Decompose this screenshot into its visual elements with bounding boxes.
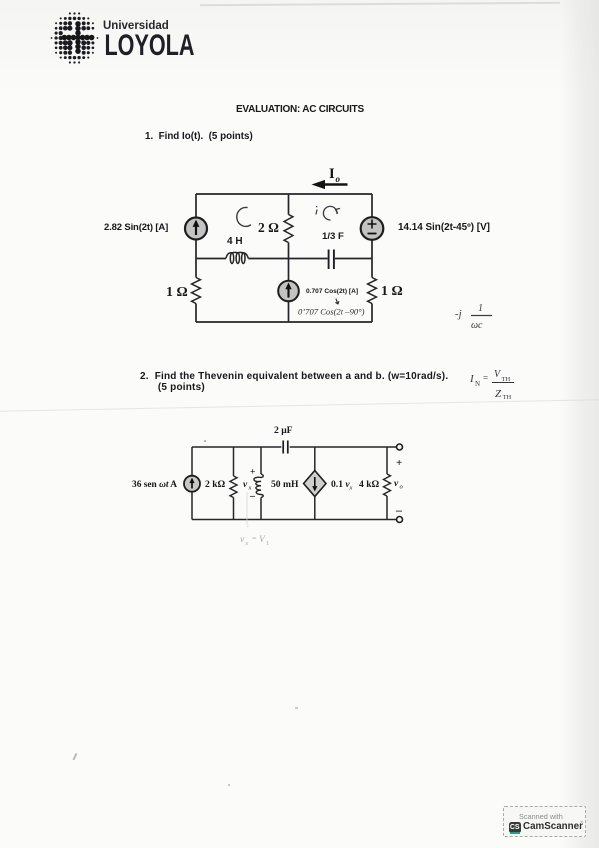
current source I2 0.707 Cos(2t) [A] xyxy=(278,281,299,302)
svg-text:x: x xyxy=(349,485,353,492)
resistor 2k xyxy=(230,476,237,498)
svg-text:+: + xyxy=(396,457,402,469)
terminal a top xyxy=(397,444,403,450)
stray scan dot near 2k ohm xyxy=(204,440,206,442)
svg-text:ωc: ωc xyxy=(471,320,483,331)
wire bottom rail xyxy=(192,519,397,521)
Io arrow xyxy=(312,180,348,189)
wire dep source branch xyxy=(314,447,316,520)
wire middle branch upper xyxy=(288,194,290,259)
svg-text:–: – xyxy=(249,491,256,502)
wire top rail right xyxy=(290,446,397,448)
handwritten tick i xyxy=(316,207,317,215)
svg-text:0’707 Cos(2t –90°): 0’707 Cos(2t –90°) xyxy=(298,307,365,317)
svg-text:1 Ω: 1 Ω xyxy=(166,285,188,300)
svg-text:N: N xyxy=(475,380,480,388)
svg-text:2 Ω: 2 Ω xyxy=(258,220,279,235)
inductor 50mH xyxy=(254,474,263,498)
handwritten IN = VTH/ZTH xyxy=(469,369,514,401)
wire right branch xyxy=(371,194,373,322)
svg-text:1: 1 xyxy=(478,303,483,314)
svg-text:36 sen ωt A: 36 sen ωt A xyxy=(132,480,177,490)
scan top edge faint line xyxy=(200,2,560,6)
bottom left speck xyxy=(73,753,77,760)
svg-text:2.82 Sin(2t) [A]: 2.82 Sin(2t) [A] xyxy=(104,222,168,233)
wire top rail left xyxy=(192,446,281,448)
wire mid rail left xyxy=(196,258,226,260)
svg-text:0.707 Cos(2t) [A]: 0.707 Cos(2t) [A] xyxy=(306,288,358,295)
scan top subtle shading xyxy=(0,0,599,95)
svg-text:1/3 F: 1/3 F xyxy=(322,231,344,242)
handwritten loop left mesh xyxy=(237,207,251,226)
headings xyxy=(236,104,364,115)
svg-text:o: o xyxy=(336,174,341,184)
voltage source V1 14.14 Sin(2t-45) [V] xyxy=(361,217,384,240)
svg-text:2 kΩ: 2 kΩ xyxy=(205,479,226,490)
svg-text:o: o xyxy=(400,484,404,491)
svg-text:+: + xyxy=(250,468,255,478)
svg-text:4 kΩ: 4 kΩ xyxy=(359,479,380,490)
capacitor 1/3F xyxy=(329,250,334,270)
svg-text:2 μF: 2 μF xyxy=(274,425,293,436)
svg-text:50 mH: 50 mH xyxy=(271,479,299,490)
wire 2k branch xyxy=(233,447,235,520)
svg-text:=: = xyxy=(252,534,257,543)
terminal b bottom xyxy=(397,517,403,523)
wire mid rail center xyxy=(248,258,327,260)
resistor 1ohm left xyxy=(192,278,201,304)
wire mid rail right xyxy=(335,258,372,260)
svg-text:V: V xyxy=(259,535,266,545)
svg-text:v: v xyxy=(243,480,248,490)
wire left branch lower xyxy=(195,259,197,323)
wire bottom rail xyxy=(196,321,372,323)
svg-text:v: v xyxy=(240,535,245,545)
inductor 4H xyxy=(226,252,248,263)
svg-text:0.1 v: 0.1 v xyxy=(331,479,350,490)
scan right edge shading xyxy=(560,0,599,848)
logo plus dots xyxy=(62,21,95,54)
svg-text:14.14 Sin(2t-45º) [V]: 14.14 Sin(2t-45º) [V] xyxy=(398,222,490,233)
svg-text:–: – xyxy=(395,503,403,517)
resistor 4k xyxy=(384,474,391,496)
svg-text:4 H: 4 H xyxy=(227,236,243,247)
handwritten faint vx=V1 xyxy=(240,492,269,547)
current source 36 sen wt A xyxy=(184,476,200,492)
wire middle branch lower xyxy=(288,259,290,323)
wire left branch xyxy=(191,447,193,520)
wire 4k branch xyxy=(386,447,388,520)
svg-text:TH: TH xyxy=(503,394,512,401)
handwritten loop right mesh xyxy=(323,206,339,220)
crease line mid page xyxy=(0,399,599,411)
svg-text:v: v xyxy=(394,479,399,489)
resistor 2ohm xyxy=(284,215,293,243)
svg-text:I: I xyxy=(329,166,335,182)
wire top rail xyxy=(196,193,372,195)
dependent source 0.1vx diamond xyxy=(304,471,326,497)
logo halftone globe xyxy=(51,12,99,63)
current source I1 2.82 Sin(2t) [A] xyxy=(185,218,207,240)
wire vx/inductor branch xyxy=(260,447,262,520)
svg-text:=: = xyxy=(483,373,488,383)
svg-text:Z: Z xyxy=(495,388,502,400)
svg-text:1: 1 xyxy=(266,540,269,547)
wire left branch upper xyxy=(195,194,197,259)
LOGO BLOCK xyxy=(0,0,250,90)
resistor 1ohm right xyxy=(368,278,377,304)
handwritten -j 1/wc xyxy=(455,303,492,331)
svg-text:1 Ω: 1 Ω xyxy=(381,284,403,299)
svg-text:-j: -j xyxy=(455,308,462,320)
svg-text:x: x xyxy=(245,540,249,547)
CamScanner badge xyxy=(503,806,586,837)
capacitor 2uF xyxy=(283,441,288,454)
